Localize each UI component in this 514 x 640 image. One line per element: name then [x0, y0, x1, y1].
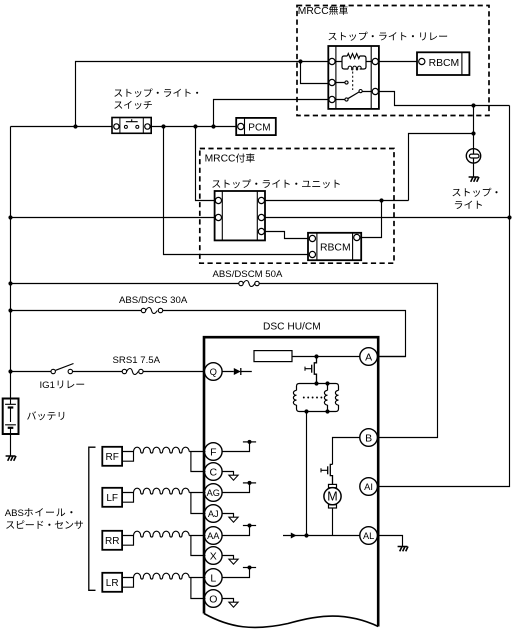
wheel speed sensor RR [102, 531, 122, 550]
relay contact points [345, 81, 348, 84]
ground AL external [398, 547, 408, 552]
dotted continuation between coils [303, 397, 305, 399]
wire coil return [306, 412, 308, 536]
wire relay NO terminal to switch line [214, 100, 333, 127]
wire right bus down to AI [377, 106, 509, 487]
wire X internal ground [222, 556, 233, 560]
wire lamp to ground [473, 163, 475, 177]
wire unit third output to RBCM [265, 232, 310, 239]
node switch-line / top feed [73, 124, 77, 128]
stop light unit box [215, 191, 265, 240]
svg-text:M: M [327, 490, 337, 504]
solenoid valve coils [297, 384, 339, 391]
sensor RF cable coil [134, 447, 190, 453]
wheel speed sensor LF [102, 488, 122, 507]
wire Q diode [222, 371, 252, 373]
svg-text:O: O [209, 593, 217, 605]
MRCC-less vehicle dashed enclosure [297, 6, 489, 116]
wire AA pull-up [222, 526, 249, 536]
motor M [329, 484, 337, 487]
wire F pull-up [222, 442, 249, 452]
wire B to motor branch [333, 438, 360, 465]
transistor solenoid driver [314, 357, 316, 384]
relay inner terminal strips [336, 46, 371, 109]
label stop light relay [329, 33, 337, 40]
svg-text:RR: RR [105, 536, 119, 547]
wire relay to RBCM [378, 61, 418, 63]
resistor in relay [347, 54, 360, 59]
connector pin AG [205, 484, 223, 502]
svg-text:AG: AG [207, 488, 220, 498]
svg-text:Q: Q [210, 366, 217, 377]
wire battery to ground [10, 434, 12, 456]
wire node to MRCC RBCM output [360, 201, 382, 238]
wire top feed from switch line to relay [76, 62, 333, 127]
wire switched feed to stop light unit [196, 127, 217, 201]
stop light lamp [466, 149, 480, 163]
wire unit middle output to right bus [265, 217, 510, 219]
wheel speed sensor RF [102, 447, 122, 466]
connector pin C [205, 463, 223, 481]
PCM module [236, 118, 276, 135]
wire AG pull-up [222, 483, 249, 493]
RBCM module (MRCC-less) [417, 52, 469, 75]
relay linkage dashed [352, 72, 354, 91]
unit terminals [215, 197, 221, 203]
wire unit output node line [265, 200, 409, 202]
node solenoid driver [314, 354, 318, 358]
sensor LF wires to connector [189, 493, 205, 514]
RBCM terminals [309, 235, 315, 241]
svg-text:ABS/DSCS 30A: ABS/DSCS 30A [119, 295, 188, 306]
svg-text:MRCC: MRCC [298, 6, 329, 17]
connector pin AJ [205, 505, 223, 523]
fuse ABS/DSCM 50A [239, 281, 243, 285]
connector pin F [205, 443, 223, 461]
wire left battery bus [10, 127, 12, 399]
diode Q input [234, 368, 241, 375]
connector pin Q [205, 363, 223, 381]
node coil bottom left [304, 409, 308, 413]
node coil top left [314, 381, 318, 385]
node AL line / coil return [304, 533, 308, 537]
node relay output / lamp [471, 103, 475, 107]
node switch-line / relay NO [211, 124, 215, 128]
sensor RR cable coil [134, 531, 190, 537]
connector pin AA [205, 527, 223, 545]
switch terminals [114, 124, 119, 129]
node switch-line / unit feed [193, 124, 197, 128]
relay terminals [329, 58, 335, 64]
switch contact points [124, 125, 127, 128]
relay contact stubs [332, 83, 375, 100]
svg-text:IG1: IG1 [40, 380, 55, 391]
node relay feed branch [298, 59, 302, 63]
label stop light [453, 189, 461, 196]
sensor RF wires to connector [189, 452, 205, 472]
sensor RR wires to connector [189, 536, 205, 556]
svg-text:LF: LF [106, 493, 118, 504]
wire C internal ground [222, 472, 233, 476]
label stop light switch [114, 90, 122, 97]
node AG pull-up [243, 482, 256, 484]
node right bus / unit middle output [507, 215, 511, 219]
svg-text:AJ: AJ [208, 509, 219, 519]
node bus / 50A line [8, 281, 12, 285]
battery [3, 399, 19, 435]
ground C internal [229, 475, 238, 480]
svg-text:A: A [365, 351, 372, 363]
wire relay output to right bus [378, 92, 509, 106]
connector pin L [205, 569, 223, 587]
svg-text:X: X [210, 550, 217, 562]
sensor LF cable coil [134, 488, 190, 494]
wire L pull-up [222, 568, 249, 578]
wire ABS/DSCM 50A line to B [11, 284, 438, 438]
relay contact arm [348, 92, 359, 99]
connector pin AI [360, 478, 378, 496]
sensor LR cable coil [134, 573, 190, 579]
svg-text:ABS: ABS [5, 508, 24, 519]
svg-text:B: B [365, 432, 372, 444]
node coil bottom right [325, 409, 329, 413]
sensor group bracket [89, 447, 96, 590]
ground battery [6, 456, 16, 461]
svg-text:LR: LR [106, 578, 119, 589]
PCM terminal [238, 123, 244, 129]
switch plunger bar [126, 119, 138, 121]
relay coil terminal stubs [332, 61, 375, 63]
node L pull-up [243, 567, 256, 569]
node switch-line / RBCM feed [161, 124, 165, 128]
wire ABS/DSCS 30A line to A [11, 311, 406, 357]
svg-text:PCM: PCM [248, 123, 270, 134]
svg-text:AI: AI [364, 481, 373, 492]
ground O internal [229, 602, 238, 607]
wire battery feed to stop light unit [11, 217, 217, 219]
node F pull-up [243, 441, 256, 443]
svg-text:L: L [210, 572, 216, 584]
node bus / SRS1 line [8, 369, 12, 373]
arrow pump return [291, 533, 297, 539]
MRCC-equipped vehicle dashed enclosure [200, 149, 394, 264]
sensor RF pins [122, 452, 133, 462]
ground AJ internal [229, 517, 238, 522]
connector pin B [360, 429, 378, 447]
svg-text:C: C [210, 466, 218, 478]
wire SRS1 line to Q [11, 371, 205, 373]
node bus / 30A line [8, 308, 12, 312]
IG1 relay contact [51, 369, 55, 373]
node coil top right [325, 381, 329, 385]
wire lamp branch to unit [409, 134, 474, 201]
fuse SRS1 [122, 369, 126, 373]
node AA pull-up [243, 525, 256, 527]
sensor LF pins [122, 493, 133, 503]
svg-text:ABS/DSCM 50A: ABS/DSCM 50A [213, 269, 283, 280]
connector pin AL [360, 527, 378, 545]
wheel speed sensor LR [102, 573, 122, 592]
relay coil and resistor parallel [342, 56, 348, 69]
sensor LR wires to connector [189, 578, 205, 599]
svg-text:AL: AL [363, 531, 374, 541]
svg-text:F: F [210, 446, 216, 458]
relay box [328, 46, 379, 109]
svg-text:DSC HU/CM: DSC HU/CM [263, 322, 321, 333]
label stop light unit [212, 180, 220, 187]
svg-text:MRCC: MRCC [205, 154, 236, 165]
ground stop light [469, 177, 479, 182]
connector pin O [205, 590, 223, 608]
sensor RR pins [122, 536, 133, 546]
connector pin X [205, 547, 223, 565]
wire resistor block to A [292, 356, 406, 358]
label battery [27, 411, 36, 419]
svg-text:RF: RF [106, 452, 119, 463]
wire motor to AL line [332, 508, 334, 536]
wire AL to ground [377, 536, 402, 547]
DSC HU/CM enclosure [204, 337, 378, 626]
RBCM terminal [419, 58, 425, 64]
wire pump return AL line [283, 535, 360, 537]
wire lamp feed [473, 106, 475, 149]
svg-text:RBCM: RBCM [429, 58, 460, 69]
node lamp branch [471, 131, 475, 135]
node unit output / RBCM [379, 198, 383, 202]
transistor motor driver [330, 464, 332, 487]
svg-text:AA: AA [207, 531, 220, 541]
coil in relay [348, 66, 361, 70]
node bus / unit feed [8, 215, 12, 219]
wire O internal ground [222, 599, 233, 603]
wire stop light switch line [11, 126, 239, 128]
wire switched feed to MRCC RBCM [164, 127, 310, 255]
sensor LR pins [122, 578, 133, 588]
svg-text:RBCM: RBCM [320, 243, 351, 254]
ground X internal [229, 559, 238, 564]
stop light switch box [112, 118, 151, 134]
RBCM module (MRCC-equipped) [308, 233, 361, 260]
wire AJ internal ground [222, 514, 233, 518]
DSC HU/CM torn bottom edge [204, 614, 378, 628]
svg-text:SRS1 7.5A: SRS1 7.5A [113, 355, 161, 366]
fuse ABS/DSCS 30A [141, 308, 145, 312]
resistor block in DSC [254, 351, 292, 362]
connector pin A [360, 348, 378, 366]
wire branch to relay coil low terminal [301, 62, 333, 84]
